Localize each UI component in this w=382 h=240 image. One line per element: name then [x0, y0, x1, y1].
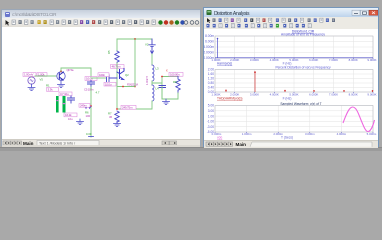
svg-text:P2N2222A: P2N2222A — [127, 82, 138, 86]
right toolbar rows — [204, 17, 378, 30]
left window bottom tab bar — [2, 139, 200, 146]
left window title bar — [2, 10, 200, 18]
svg-text:1.00: 1.00 — [208, 114, 214, 118]
capacitor C1 — [107, 75, 118, 82]
svg-text:1.00mV: 1.00mV — [24, 73, 33, 77]
svg-text:7.000K: 7.000K — [329, 93, 338, 97]
svg-text:R1: R1 — [46, 84, 50, 88]
wire between coils — [151, 81, 153, 85]
battery V2 — [149, 39, 155, 54]
label 249.75m pill on rail — [121, 105, 136, 109]
svg-text:Harm(v(x)): Harm(v(x)) — [217, 62, 232, 66]
svg-text:4.000K: 4.000K — [270, 93, 279, 97]
resistor R7 below rail — [115, 111, 119, 122]
ground under V1 — [28, 84, 35, 90]
source V1 — [28, 77, 35, 84]
collector wire up/right — [61, 68, 91, 76]
svg-text:100.00n: 100.00n — [170, 73, 180, 77]
inductor L4 — [152, 85, 154, 101]
pill 16.2k — [64, 113, 77, 117]
label 48.75m pill — [111, 65, 125, 69]
left window: schematic editor — [1, 9, 201, 146]
svg-text:6.000K: 6.000K — [309, 93, 318, 97]
svg-text:Percent Distortion of v(x) vs: Percent Distortion of v(x) vs Frequency — [275, 66, 330, 70]
resistor small horizontal — [83, 105, 91, 109]
tap wire to output — [152, 83, 162, 99]
svg-text:9.000K: 9.000K — [367, 58, 376, 62]
label pills V1 — [23, 73, 36, 77]
pill 3.3k left — [47, 88, 59, 92]
svg-text:1.20: 1.20 — [208, 77, 214, 81]
label 100.0n pill — [169, 72, 183, 76]
svg-text:THD(HARM(v(x))): THD(HARM(v(x))) — [217, 96, 243, 100]
sampled sine wave — [343, 107, 375, 132]
svg-text:V5: V5 — [40, 78, 44, 82]
svg-text:100n: 100n — [99, 73, 105, 77]
svg-text:L3: L3 — [156, 67, 160, 71]
wire L4 to bottom rail — [150, 101, 152, 109]
svg-text:1.000m: 1.000m — [242, 132, 252, 136]
ground output — [163, 99, 170, 105]
svg-text:-1.00: -1.00 — [207, 120, 214, 124]
svg-text:10.0u: 10.0u — [105, 82, 112, 86]
desktop background — [0, 0, 382, 150]
svg-text:v(x): v(x) — [217, 135, 222, 139]
svg-text:48.75m: 48.75m — [112, 65, 122, 69]
svg-text:10.0u: 10.0u — [86, 77, 93, 81]
left window toolbar — [2, 18, 200, 28]
svg-text:Main: Main — [236, 142, 247, 147]
ground mid — [77, 119, 84, 125]
base wire — [117, 86, 135, 88]
svg-text:2.00: 2.00 — [208, 68, 214, 72]
svg-text:C7 10u: C7 10u — [60, 92, 69, 96]
capacitor on output leg — [159, 86, 166, 88]
right window title bar — [204, 8, 378, 17]
svg-text:8.00m: 8.00m — [205, 34, 214, 38]
schematic canvas — [2, 27, 200, 139]
wire x91 down — [90, 87, 92, 137]
svg-text:3.000m: 3.000m — [305, 132, 315, 136]
svg-text:QF 5a: QF 5a — [67, 68, 74, 72]
svg-text:-3.00: -3.00 — [207, 125, 214, 129]
svg-text:V2: V2 — [145, 43, 149, 47]
capacitor C5 — [88, 80, 95, 87]
svg-text:x: x — [166, 69, 168, 73]
svg-text:4.7: 4.7 — [96, 91, 100, 95]
capacitor C2 — [68, 96, 75, 103]
selected resistor bars — [56, 96, 59, 113]
pill C7 — [59, 92, 72, 96]
pill 10u — [85, 77, 97, 81]
svg-text:2.000m: 2.000m — [204, 51, 214, 55]
svg-text:249.75m: 249.75m — [122, 106, 133, 110]
svg-text:3.000K: 3.000K — [250, 93, 259, 97]
svg-text:4.000m: 4.000m — [204, 45, 214, 49]
pill R6 — [79, 104, 90, 108]
svg-text:3.3k: 3.3k — [48, 88, 54, 92]
inductor L3 — [152, 65, 154, 81]
output top wire — [162, 77, 178, 84]
svg-text:R8: R8 — [173, 80, 177, 84]
svg-text:1.60: 1.60 — [208, 72, 214, 76]
wire below cap — [161, 88, 163, 100]
transistor Q1 — [57, 72, 65, 80]
svg-text:1.00mH: 1.00mH — [146, 76, 149, 85]
svg-text:0.00: 0.00 — [86, 132, 92, 136]
plot area — [204, 29, 378, 140]
svg-text:9.000K: 9.000K — [367, 93, 376, 97]
amplitude trace (flat near zero with fundamental spike) — [215, 57, 373, 59]
svg-text:5.00: 5.00 — [208, 104, 214, 108]
right window: Distortion Analysis — [203, 7, 379, 147]
distortion spikes — [226, 73, 373, 93]
wire battery to L3 — [151, 54, 153, 65]
resistor R8 — [176, 77, 180, 94]
svg-text:8.000K: 8.000K — [349, 93, 358, 97]
svg-text:0.40: 0.40 — [208, 86, 214, 90]
svg-text:100: 100 — [86, 114, 91, 118]
wire x117 upper — [116, 39, 118, 51]
base coupling to x117 — [91, 77, 106, 79]
transistor Q2 — [117, 69, 124, 80]
svg-text:249m: 249m — [80, 104, 87, 108]
svg-text:4.000m: 4.000m — [337, 132, 347, 136]
wire x117 to transistor — [116, 63, 118, 109]
output bottom wire — [162, 93, 178, 99]
node dots base wire — [122, 86, 124, 88]
svg-text:0.80: 0.80 — [208, 81, 214, 85]
wire top rail — [117, 38, 152, 40]
svg-text:T (Secs): T (Secs) — [281, 135, 293, 139]
svg-text:C5 100n: C5 100n — [84, 88, 94, 92]
node dot top rail — [134, 38, 136, 40]
ground under R7 — [114, 122, 121, 127]
svg-text:3.00: 3.00 — [208, 109, 214, 113]
ground under Q1 — [58, 80, 65, 87]
svg-text:R5: R5 — [107, 50, 111, 54]
wire bottom rail — [117, 108, 150, 110]
svg-text:L4: L4 — [156, 87, 160, 91]
svg-text:6.00m: 6.00m — [205, 40, 214, 44]
wire x135 — [134, 39, 136, 87]
svg-text:36: 36 — [109, 115, 113, 119]
right window bottom tab bar — [204, 140, 378, 148]
wire V1 to Q1 — [35, 75, 57, 77]
node dot output — [161, 76, 163, 78]
svg-text:10u: 10u — [68, 117, 73, 121]
svg-text:Q2: Q2 — [125, 73, 129, 77]
resistor R5 — [115, 51, 119, 63]
svg-text:F (Hz): F (Hz) — [283, 96, 292, 100]
svg-text:5.000m: 5.000m — [367, 132, 377, 136]
